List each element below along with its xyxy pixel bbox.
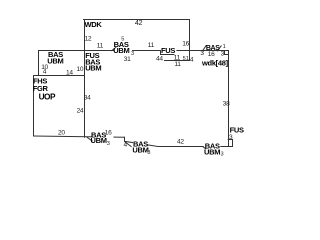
wall: southeast bump-out xyxy=(228,140,232,147)
svg-text:wdk[48]: wdk[48] xyxy=(201,58,229,67)
svg-text:14: 14 xyxy=(66,70,73,77)
svg-text:11: 11 xyxy=(148,42,155,49)
svg-text:31: 31 xyxy=(124,56,131,63)
svg-text:11: 11 xyxy=(97,42,104,49)
svg-text:WDK: WDK xyxy=(85,20,103,29)
leader arrow: bottom left BAS/UBM xyxy=(87,137,93,141)
svg-text:1: 1 xyxy=(186,56,189,62)
leader arrow: top BAS/UBM xyxy=(111,47,116,51)
svg-text:44: 44 xyxy=(156,56,163,63)
wall: main house top edge xyxy=(39,50,229,52)
wall: FHS/FGR top edge xyxy=(34,75,85,77)
svg-text:10: 10 xyxy=(77,66,84,73)
wall: FUS inset box bottom line xyxy=(165,60,190,62)
svg-text:UBM: UBM xyxy=(204,148,220,157)
wall: FUS inset box mid line xyxy=(161,54,175,56)
wall: UOP bottom edge xyxy=(34,136,125,137)
svg-text:12: 12 xyxy=(85,36,92,43)
svg-text:16: 16 xyxy=(182,41,189,48)
svg-text:UBM: UBM xyxy=(113,46,129,55)
svg-text:UBM: UBM xyxy=(47,57,63,66)
leader slash after BAS (top right) xyxy=(217,46,221,51)
wall: east outer edge xyxy=(228,51,230,147)
wall: northeast step xyxy=(225,51,229,55)
label background boxes xyxy=(92,46,220,149)
svg-text:11: 11 xyxy=(174,61,181,68)
svg-text:3: 3 xyxy=(107,141,110,147)
svg-text:UBM: UBM xyxy=(85,64,101,73)
svg-text:1: 1 xyxy=(223,44,226,50)
leader slash before BAS (top right) xyxy=(202,46,206,51)
wall: BAS/UBM left box west edge xyxy=(38,51,40,76)
svg-text:UOP: UOP xyxy=(39,92,56,102)
wall: main bottom edge xyxy=(125,141,229,146)
wall: west outer edge xyxy=(33,76,35,137)
svg-text:3: 3 xyxy=(221,152,224,158)
svg-text:38: 38 xyxy=(223,101,230,108)
wall: WDK deck top edge xyxy=(84,19,190,21)
svg-text:34: 34 xyxy=(84,94,91,101)
wall: bottom jog xyxy=(124,137,126,141)
svg-text:42: 42 xyxy=(177,139,184,146)
svg-text:UBM: UBM xyxy=(91,136,107,145)
wall: WDK right edge xyxy=(189,20,191,61)
leader arrow: bottom right BAS/UBM xyxy=(203,146,207,149)
wall: long left vertical (WDK left / BAS-UOP divider) xyxy=(84,20,86,138)
leader arrow: bottom middle BAS/UBM xyxy=(125,142,132,147)
svg-text:24: 24 xyxy=(77,107,84,114)
svg-text:3: 3 xyxy=(147,150,150,156)
svg-text:20: 20 xyxy=(58,130,65,137)
svg-text:16: 16 xyxy=(208,51,215,58)
svg-text:5: 5 xyxy=(121,37,124,43)
svg-text:UBM: UBM xyxy=(132,146,148,155)
wall: FUS inset box left edge xyxy=(160,51,162,55)
svg-text:42: 42 xyxy=(135,18,143,27)
svg-text:3: 3 xyxy=(131,51,134,57)
